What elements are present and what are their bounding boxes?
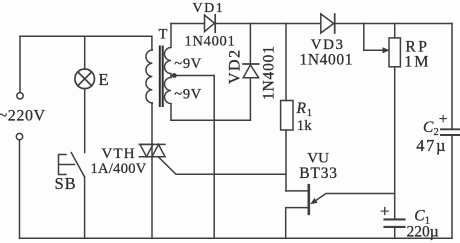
wire top-left rail from AC input to transformer primary <box>20 36 152 50</box>
wire C1 to bottom rail <box>394 227 396 238</box>
svg-text:1N4001: 1N4001 <box>185 34 236 50</box>
transformer secondary lower winding <box>165 78 172 121</box>
wire top DC rail VD1 to VD3 <box>215 23 321 25</box>
wire right rail lower <box>451 135 453 238</box>
wire center tap <box>171 75 214 77</box>
wire left AC vertical lower <box>19 140 21 239</box>
wire VD2 anode down <box>249 78 251 120</box>
wire RP wiper arm <box>364 24 383 51</box>
wire primary bottom to triac <box>151 103 153 144</box>
svg-text:47µ: 47µ <box>416 136 447 155</box>
svg-text:C: C <box>423 119 434 136</box>
wire VD2 cathode to rail <box>249 24 251 64</box>
svg-text:VD2: VD2 <box>226 48 243 84</box>
svg-text:1N4001: 1N4001 <box>260 45 277 100</box>
svg-text:1M: 1M <box>404 53 430 70</box>
wire UJT b2 lead <box>286 190 308 192</box>
svg-text:R: R <box>296 100 307 117</box>
node center tap junction <box>172 73 177 78</box>
wire UJT b1 lead to bottom rail <box>286 208 308 239</box>
switch SB button actuator <box>59 155 75 175</box>
svg-text:1k: 1k <box>297 118 313 134</box>
svg-text:T: T <box>159 27 168 43</box>
svg-text:C: C <box>414 208 425 225</box>
diode VD1 <box>205 15 215 32</box>
wire triac gate <box>159 157 286 174</box>
wire bottom rail <box>20 237 453 239</box>
transistor VU BT33 base bar <box>307 185 310 214</box>
svg-text:1A/400V: 1A/400V <box>91 161 147 177</box>
diode VD3 <box>321 14 334 33</box>
wire triac to bottom rail <box>151 157 153 239</box>
svg-text:220µ: 220µ <box>407 224 439 241</box>
svg-text:+: + <box>439 111 448 128</box>
svg-text:1N4001: 1N4001 <box>300 52 354 69</box>
svg-text:SB: SB <box>55 174 77 193</box>
wire center tap to bottom rail <box>213 76 215 239</box>
wire R1 bottom to UJT b2 <box>285 130 287 191</box>
svg-text:VD1: VD1 <box>193 1 225 16</box>
wire right rail upper <box>451 24 453 130</box>
wire RP bottom to emitter node and C1 <box>394 67 396 219</box>
wire top DC rail VD3 to right rail <box>335 23 452 25</box>
transformer secondary upper winding <box>165 24 172 78</box>
resistor R1 <box>281 101 293 131</box>
wire switch to bottom rail <box>84 177 86 238</box>
wire UJT emitter from RP/C1 node <box>316 194 395 201</box>
wire top DC rail (left of VD1) <box>171 23 205 25</box>
transformer core <box>160 47 163 107</box>
wire lamp to switch <box>84 89 86 153</box>
svg-text:BT33: BT33 <box>299 165 338 182</box>
terminal upper AC input <box>17 93 23 99</box>
triac VTH <box>139 144 165 156</box>
wire RP top stub <box>394 24 396 38</box>
svg-text:E: E <box>99 70 109 89</box>
svg-text:~9V: ~9V <box>174 56 202 72</box>
potentiometer RP <box>389 38 400 67</box>
wire secondary bottom to VD2 anode <box>171 119 250 121</box>
svg-text:VTH: VTH <box>102 146 136 162</box>
svg-text:VD3: VD3 <box>311 37 345 53</box>
transformer T primary winding <box>146 50 152 103</box>
wire lamp stub top <box>84 36 86 69</box>
wire R1 top <box>285 24 287 101</box>
svg-text:+: + <box>380 201 390 220</box>
capacitor C1 <box>385 218 405 220</box>
lamp E <box>75 69 95 89</box>
diode VD2 <box>243 63 259 65</box>
svg-text:~220V: ~220V <box>0 107 46 124</box>
terminal lower AC input <box>16 133 22 139</box>
capacitor C2 <box>441 128 460 130</box>
svg-text:~9V: ~9V <box>174 87 202 103</box>
switch SB blade <box>71 153 84 177</box>
wire left AC vertical upper <box>19 36 21 92</box>
